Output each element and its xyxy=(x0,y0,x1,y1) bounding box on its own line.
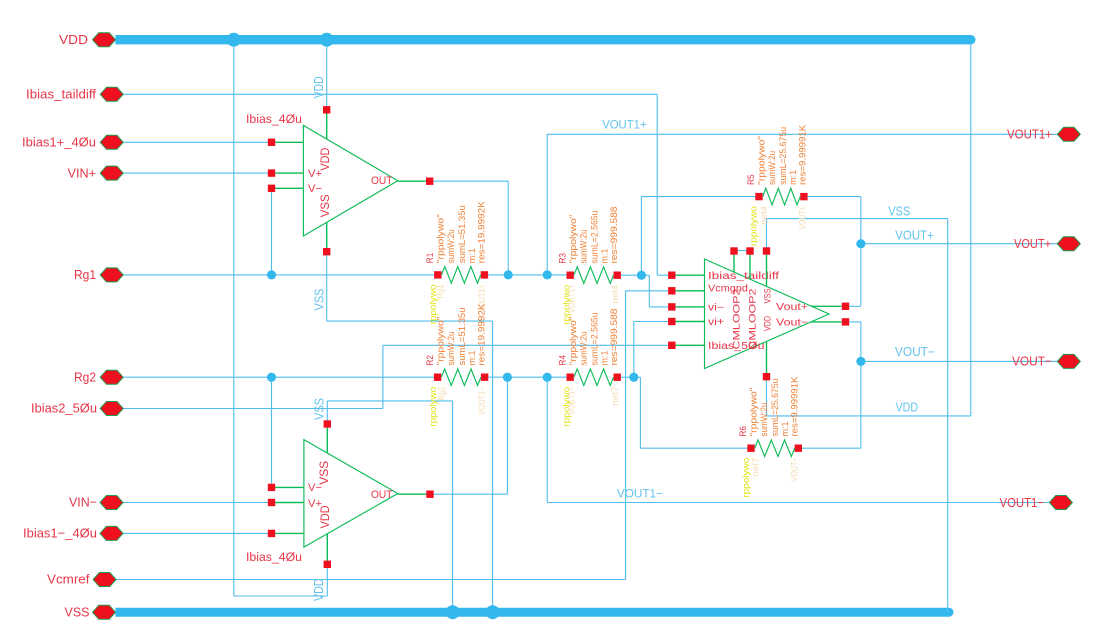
junction net7 node xyxy=(629,373,638,382)
resistor R5 (feedback 9.99991K) xyxy=(746,124,809,246)
svg-text:VOUT+: VOUT+ xyxy=(798,206,808,230)
pin VOUT+ xyxy=(1014,236,1080,251)
resistor R2 (value 19.9992K) xyxy=(425,303,489,427)
wire Rg2 net xyxy=(123,377,434,484)
wire VDD branch from output op-amp xyxy=(767,44,971,416)
svg-text:VOUT1−: VOUT1− xyxy=(477,387,487,415)
svg-text:R5: R5 xyxy=(746,174,757,185)
wire VOUT1+ net (upper op-amp output) xyxy=(433,134,1057,275)
svg-text:"rppolywo": "rppolywo" xyxy=(568,317,579,366)
pin Vcmref xyxy=(47,572,116,587)
svg-text:res=9.99991K: res=9.99991K xyxy=(798,124,809,185)
junction VDD rail / left branch xyxy=(227,33,241,47)
pin VIN+ xyxy=(68,165,124,180)
svg-text:R3: R3 xyxy=(557,253,568,264)
junction Rg1 / V- tap xyxy=(267,270,276,279)
svg-text:VDD: VDD xyxy=(896,401,918,415)
svg-text:res=9.99991K: res=9.99991K xyxy=(790,376,801,437)
svg-text:VSS: VSS xyxy=(65,604,90,619)
svg-text:sumW:2u: sumW:2u xyxy=(767,151,778,185)
svg-text:VOUT−: VOUT− xyxy=(895,345,935,359)
junction VOUT+ node xyxy=(856,239,865,248)
svg-text:Ibias1−_4Øu: Ibias1−_4Øu xyxy=(23,526,97,541)
svg-text:net7: net7 xyxy=(751,458,761,477)
wire Ibias_taildiff net xyxy=(123,94,668,275)
svg-text:"rppolywo": "rppolywo" xyxy=(749,388,760,437)
svg-text:res=19.9992K: res=19.9992K xyxy=(476,303,487,366)
svg-text:res=999.588: res=999.588 xyxy=(609,207,620,264)
svg-text:Vout−: Vout− xyxy=(776,318,808,329)
svg-text:R6: R6 xyxy=(738,426,749,437)
svg-text:Ibias_4Øu: Ibias_4Øu xyxy=(246,550,302,564)
pin VIN- xyxy=(69,495,123,510)
resistor R3 (value 999.588) xyxy=(557,207,621,325)
pin Ibias2_50u xyxy=(31,401,123,416)
svg-text:Ibias_taildiff: Ibias_taildiff xyxy=(26,87,96,102)
junction R2-R4 / VOUT1- xyxy=(543,373,552,382)
pin VDD xyxy=(59,32,116,47)
svg-text:CMLOOP2: CMLOOP2 xyxy=(748,289,759,350)
svg-text:Ibias1+_4Øu: Ibias1+_4Øu xyxy=(22,135,96,150)
wire VSS branch from output op-amp xyxy=(767,219,948,613)
svg-text:"rppolywo": "rppolywo" xyxy=(436,214,447,263)
svg-text:VSS: VSS xyxy=(318,194,332,217)
pin Ibias1-_40u xyxy=(23,526,123,541)
svg-text:VOUT1−: VOUT1− xyxy=(567,387,577,415)
pin VOUT- xyxy=(1012,354,1080,369)
svg-text:sumW:2u: sumW:2u xyxy=(578,230,589,264)
pin Rg2 xyxy=(74,369,123,384)
svg-text:VDD: VDD xyxy=(318,505,332,528)
wire VIN- net xyxy=(123,502,268,504)
resistor R4 (value 999.588) xyxy=(557,309,621,427)
svg-text:VSS: VSS xyxy=(888,204,910,218)
resistor R1 (value 19.9992K) xyxy=(425,201,488,325)
junction Rg2 / V- tap xyxy=(267,373,276,382)
wire Ibias1+_40u net xyxy=(123,141,268,143)
svg-text:VDD: VDD xyxy=(318,147,332,170)
svg-text:net4: net4 xyxy=(610,285,620,304)
wire Ibias2_50u net xyxy=(123,345,668,408)
svg-text:"rppolywo": "rppolywo" xyxy=(435,317,446,366)
svg-text:sumW:2u: sumW:2u xyxy=(578,332,589,366)
junction R2 / lower output xyxy=(503,373,512,382)
wire Vcmref net xyxy=(116,291,668,580)
svg-text:vi−: vi− xyxy=(708,303,724,314)
pin VOUT1+ xyxy=(1007,127,1080,142)
svg-text:VSS: VSS xyxy=(317,461,331,485)
svg-text:rppolywo: rppolywo xyxy=(741,458,751,498)
svg-text:rppolywo: rppolywo xyxy=(749,206,759,246)
svg-text:res=999.588: res=999.588 xyxy=(609,309,620,366)
wire VDD branch to lower op-amp xyxy=(234,44,327,596)
wire Ibias1-_40u net xyxy=(123,532,268,534)
svg-text:Rg2: Rg2 xyxy=(74,369,96,384)
junction VSS rail / upper branch xyxy=(486,605,500,619)
op-amp U3 (output fully-differential amplifier) xyxy=(668,247,849,380)
wire VOUT+ net xyxy=(808,197,1058,307)
svg-text:VOUT−: VOUT− xyxy=(1012,354,1052,369)
svg-text:R2: R2 xyxy=(425,355,436,366)
svg-text:VIN−: VIN− xyxy=(69,495,97,510)
svg-text:Rg1: Rg1 xyxy=(74,267,96,282)
wire Rg1 net xyxy=(123,192,434,275)
VSS power rail xyxy=(115,608,953,617)
svg-text:VOUT−: VOUT− xyxy=(790,458,800,482)
wire VSS branch from lower op-amp xyxy=(327,401,452,612)
svg-text:VSS: VSS xyxy=(313,398,327,420)
svg-text:VOUT+: VOUT+ xyxy=(1014,236,1051,251)
junction VSS rail / lower branch xyxy=(446,605,460,619)
svg-text:VSS: VSS xyxy=(313,289,327,311)
wire VOUT1- net (lower op-amp output) xyxy=(434,377,1050,502)
svg-text:VDD: VDD xyxy=(312,76,326,98)
wire VSS branch from upper op-amp xyxy=(327,255,493,612)
svg-text:OUT: OUT xyxy=(371,489,393,501)
junction R1-R3 / VOUT1+ xyxy=(543,270,552,279)
svg-text:Ibias_taildiff: Ibias_taildiff xyxy=(708,271,779,282)
wire CMLOOP2 tie xyxy=(734,250,750,252)
junction VOUT- node xyxy=(856,357,865,366)
wire VIN+ net xyxy=(123,172,268,174)
svg-text:VDD: VDD xyxy=(762,316,773,331)
svg-text:net4: net4 xyxy=(759,206,769,225)
svg-text:Vcmref: Vcmref xyxy=(47,572,90,587)
pin VSS xyxy=(65,604,116,619)
pin Ibias_taildiff xyxy=(26,87,123,102)
svg-text:OUT: OUT xyxy=(371,175,393,187)
svg-text:Rg1: Rg1 xyxy=(435,284,445,298)
svg-text:"rppolywo": "rppolywo" xyxy=(757,136,768,185)
svg-text:V−: V− xyxy=(308,183,322,195)
junction R1 / upper output xyxy=(504,270,513,279)
svg-text:VOUT1+: VOUT1+ xyxy=(602,117,646,131)
svg-text:VOUT1−: VOUT1− xyxy=(1000,495,1045,510)
resistor R6 (feedback 9.99991K) xyxy=(738,376,802,498)
wire VDD branch to upper op-amp xyxy=(326,44,328,106)
op-amp U1 (upper unity buffer) xyxy=(246,106,433,255)
junction net4 node xyxy=(637,271,646,280)
junction VDD rail / upper op-amp xyxy=(320,33,334,47)
svg-text:VOUT1+: VOUT1+ xyxy=(567,285,577,313)
svg-text:VSS: VSS xyxy=(762,289,773,304)
svg-text:VOUT1+: VOUT1+ xyxy=(1007,127,1052,142)
pin Ibias1+_40u xyxy=(22,135,123,150)
op-amp U2 (lower unity buffer) xyxy=(246,420,434,568)
svg-text:net7: net7 xyxy=(610,387,620,406)
svg-text:R1: R1 xyxy=(425,253,436,264)
svg-text:Rg2: Rg2 xyxy=(437,387,447,401)
svg-text:Ibias_4Øu: Ibias_4Øu xyxy=(246,112,302,126)
svg-text:vi+: vi+ xyxy=(708,317,724,328)
wire VOUT- net xyxy=(802,322,1058,448)
pin VOUT1- xyxy=(1000,495,1073,510)
svg-text:CMLOOP2: CMLOOP2 xyxy=(732,289,743,350)
svg-text:"rppolywo": "rppolywo" xyxy=(568,215,579,264)
wire net4 (vi- node) xyxy=(621,197,756,307)
svg-text:VIN+: VIN+ xyxy=(68,165,97,180)
svg-text:sumW:2u: sumW:2u xyxy=(446,332,457,366)
svg-text:VOUT+: VOUT+ xyxy=(895,228,934,242)
pin Rg1 xyxy=(74,267,123,282)
wire net7 (vi+ node) xyxy=(621,322,748,449)
svg-text:sumW:2u: sumW:2u xyxy=(759,403,770,437)
svg-text:sumW:2u: sumW:2u xyxy=(446,229,457,263)
svg-text:Ibias2_5Øu: Ibias2_5Øu xyxy=(31,401,97,416)
svg-text:Vout+: Vout+ xyxy=(776,302,808,313)
svg-text:VDD: VDD xyxy=(312,579,326,602)
svg-text:VDD: VDD xyxy=(59,32,88,47)
svg-text:res=19.9992K: res=19.9992K xyxy=(477,201,488,264)
svg-text:R4: R4 xyxy=(557,355,568,366)
VDD power rail xyxy=(115,35,975,44)
svg-text:VOUT1−: VOUT1− xyxy=(617,487,663,501)
